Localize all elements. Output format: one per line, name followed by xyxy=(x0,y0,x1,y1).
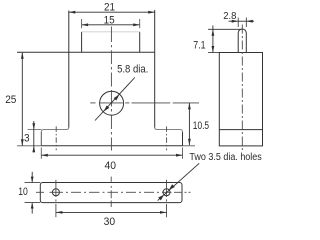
svg-text:Two 3.5 dia. holes: Two 3.5 dia. holes xyxy=(189,152,261,163)
front view top tab left edge xyxy=(81,32,83,53)
svg-text:10.5: 10.5 xyxy=(193,120,209,132)
dimension 21 line with arrows xyxy=(69,11,155,14)
front view base left edge xyxy=(40,132,42,146)
front view body left edge with dim-21 extension xyxy=(68,11,70,128)
leader line to right hole with arrows xyxy=(158,163,200,200)
front view body right edge with dim-21 extension xyxy=(154,10,156,128)
dim-15 left extension tick xyxy=(81,19,83,28)
dimension 10.5 line with arrows xyxy=(188,103,191,145)
side view body outline xyxy=(219,53,262,146)
hidden center line of left base hole xyxy=(55,126,57,150)
svg-text:5.8 dia.: 5.8 dia. xyxy=(117,64,148,76)
bottom view plate outline xyxy=(40,183,182,203)
front view top tab top edge (faint) xyxy=(82,31,140,33)
svg-text:21: 21 xyxy=(104,2,115,14)
front view base bottom edge xyxy=(41,145,182,147)
front view vertical center line (dash-dot) xyxy=(110,27,112,151)
svg-text:15: 15 xyxy=(104,14,115,26)
dimension 2.8 extension ticks, line and arrows xyxy=(229,18,255,28)
bottom view vertical center line (dash-dot) xyxy=(110,177,112,207)
mounting hole circle 5.8 dia xyxy=(100,91,124,115)
front view horizontal center line through circle (dash-dot, extends to dim 10.5) xyxy=(90,102,199,104)
front view top tab right edge xyxy=(139,32,141,53)
dimension 15 line with arrows xyxy=(82,23,140,26)
dimension 25 line with arrows xyxy=(21,52,24,146)
svg-text:30: 30 xyxy=(104,216,116,228)
svg-text:10: 10 xyxy=(18,186,28,198)
front view base top right shoulder with rounded corners xyxy=(155,128,183,133)
side view vertical center line (dash-dot) xyxy=(241,25,243,153)
left hole center line with dim-30 extension (dash-dot) xyxy=(55,180,57,217)
svg-text:40: 40 xyxy=(105,160,117,172)
svg-text:2.8: 2.8 xyxy=(223,11,237,22)
svg-text:7.1: 7.1 xyxy=(193,39,205,51)
front view base top left shoulder with rounded corners and dim-3 extension xyxy=(28,128,69,133)
extension line below base left (for dims 25 and 3) xyxy=(17,145,41,147)
bottom view left hole 3.5 dia xyxy=(52,189,59,196)
svg-text:3: 3 xyxy=(24,132,30,144)
bottom view right hole 3.5 dia xyxy=(163,189,170,196)
5.8 dia leader line with arrows across circle xyxy=(95,78,135,121)
side view top tab with rounded cap xyxy=(238,29,246,53)
dimension 30 line with arrows xyxy=(56,211,167,214)
hidden center line of right base hole xyxy=(166,126,168,150)
dim-40 right extension vertical xyxy=(182,148,184,159)
dimension 7.1 extension lines, line and arrows xyxy=(208,26,242,53)
dimension 10 extension lines, line and arrows xyxy=(25,172,41,214)
bottom view horizontal center line (dash-dot) xyxy=(36,191,191,193)
dimension 40 line with arrows xyxy=(41,154,182,157)
dim-40 left extension vertical xyxy=(40,148,42,159)
svg-text:25: 25 xyxy=(5,94,16,106)
extension line below base right (for dim 10.5) xyxy=(183,145,196,147)
right hole center line with dim-30 extension (dash-dot) xyxy=(166,180,168,217)
dim-15 right extension tick xyxy=(139,19,141,28)
side view base step line xyxy=(219,129,262,131)
front view base right edge xyxy=(182,132,184,146)
dimension 3 line with arrows xyxy=(32,121,35,153)
front view body top edge with dim-25 extension xyxy=(17,51,155,53)
